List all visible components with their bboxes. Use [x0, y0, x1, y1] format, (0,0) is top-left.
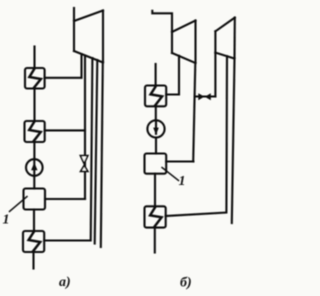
heater H5 — [145, 206, 166, 227]
wire B1 exhaust to deaerator — [193, 63, 195, 162]
wire feedwater tail scheme b — [154, 228, 156, 253]
wire H2 steam line — [45, 129, 85, 131]
wire deaerator to heater — [154, 174, 156, 207]
wire pump to deaerator — [155, 138, 157, 154]
wire deaerator to H3 — [33, 210, 35, 232]
deaerator D2 — [145, 154, 167, 174]
heater H1 — [25, 68, 45, 89]
wire extraction 1 to heater H1 — [45, 54, 82, 78]
wire B2 extraction to heater — [166, 56, 227, 216]
wire deaerator steam line — [45, 198, 85, 200]
wire feedwater top — [33, 47, 35, 69]
svg-text:а): а) — [59, 275, 71, 290]
turbine B2 left edge — [214, 31, 216, 52]
heater H2 — [25, 121, 45, 142]
turbine T1 left edge and inlet — [73, 8, 75, 51]
turbine T1 right edge — [102, 11, 104, 63]
wire H2 to pump — [33, 142, 35, 159]
turbine T1 bottom edge — [74, 51, 103, 63]
turbine B1 right edge — [194, 21, 196, 64]
wire extraction 2 pipe P2 — [84, 56, 86, 199]
turbine B1 top edge — [172, 21, 196, 33]
leader line label 1 — [10, 197, 28, 212]
valve V1 — [80, 156, 87, 172]
wire H3 steam line and pipe P3 — [44, 58, 92, 241]
wire B2 exhaust down — [232, 59, 235, 223]
deaerator D1 — [24, 189, 46, 210]
wire H1 to H2 — [33, 89, 35, 122]
wire turbine exhaust down — [101, 63, 103, 248]
wire condenser line P4 — [95, 60, 98, 244]
wire inlet line scheme b — [152, 11, 172, 32]
pump PN1 — [26, 159, 43, 176]
wire feedwater top scheme b — [155, 64, 157, 86]
pump PN2 — [147, 120, 164, 137]
valve V2 — [198, 93, 211, 100]
svg-text:1: 1 — [3, 213, 10, 228]
svg-text:1: 1 — [179, 174, 186, 189]
wire pump to deaerator — [33, 176, 35, 189]
turbine B2 bottom edge — [215, 53, 234, 59]
wire deaerator steam line scheme b — [166, 160, 193, 162]
svg-text:б): б) — [180, 276, 192, 291]
leader line label 1 scheme b — [162, 168, 179, 181]
wire crossover riser to B2 — [214, 53, 216, 97]
turbine B2 right edge — [233, 18, 235, 59]
heater H4 — [145, 86, 166, 107]
turbine B1 left edge — [171, 32, 173, 53]
turbine B1 bottom edge — [172, 53, 196, 63]
wire feedwater tail — [32, 252, 34, 269]
wire crossover pipe — [195, 95, 216, 97]
turbine B2 top edge — [215, 18, 234, 32]
turbine T1 top edge — [74, 11, 103, 22]
heater H3 — [23, 231, 44, 252]
wire heater to pump — [155, 106, 157, 120]
wire B1 extraction to heater — [166, 56, 179, 95]
